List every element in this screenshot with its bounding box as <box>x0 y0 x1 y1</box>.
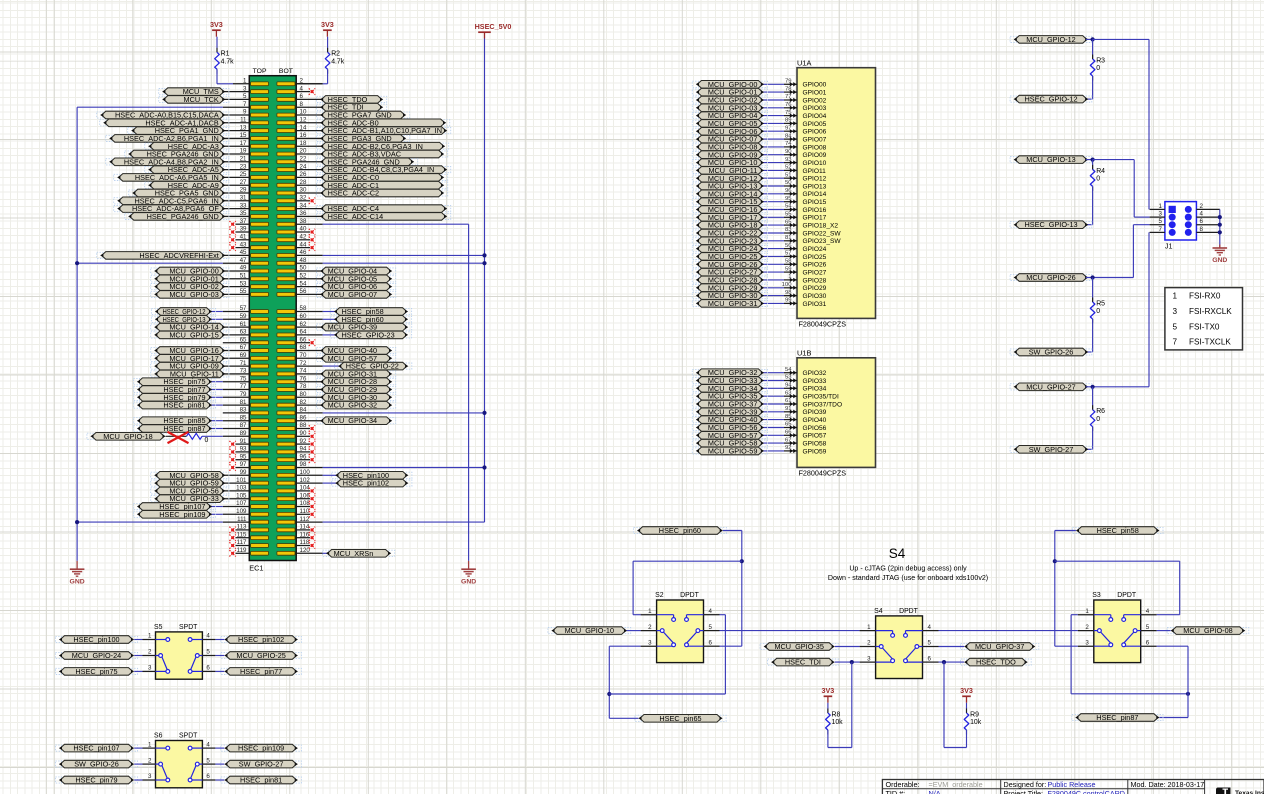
wire <box>210 396 223 398</box>
svg-text:1: 1 <box>648 608 652 615</box>
svg-text:GPIO33: GPIO33 <box>803 378 827 385</box>
svg-text:3: 3 <box>648 639 652 646</box>
svg-text:GPIO02: GPIO02 <box>803 97 827 104</box>
wire <box>210 404 223 406</box>
svg-text:F280049C controlCARD: F280049C controlCARD <box>1048 789 1126 794</box>
svg-text:59: 59 <box>785 266 792 272</box>
wire <box>608 646 610 718</box>
svg-text:GND: GND <box>1212 257 1227 264</box>
no-ERC marker <box>229 542 235 548</box>
wire <box>210 506 223 508</box>
port MCU_GPIO-16 <box>696 205 764 214</box>
svg-text:GPIO31: GPIO31 <box>803 301 827 308</box>
no-ERC marker <box>309 457 315 463</box>
wire <box>1054 531 1056 647</box>
svg-text:SPDT: SPDT <box>179 624 198 631</box>
port MCU_GPIO-00 <box>696 80 764 89</box>
wire <box>761 169 784 171</box>
port HSEC_pin58 <box>1076 526 1160 535</box>
svg-text:HSEC_pin81: HSEC_pin81 <box>163 401 205 410</box>
port HSEC_ADC-C0 <box>320 173 444 182</box>
wire <box>1092 319 1094 352</box>
port MCU_GPIO-16 <box>154 346 225 355</box>
svg-text:GPIO15: GPIO15 <box>803 199 827 206</box>
svg-text:75: 75 <box>785 110 792 116</box>
switch S3 DPDT <box>1078 592 1157 662</box>
wire <box>134 639 142 641</box>
no-ERC marker <box>229 441 235 447</box>
wire <box>1055 560 1180 562</box>
wire <box>723 530 742 532</box>
port MCU_GPIO-15 <box>154 330 225 339</box>
resistor R3 <box>1090 55 1105 81</box>
junction <box>1053 559 1057 563</box>
wire <box>1092 186 1094 224</box>
svg-text:5: 5 <box>1146 624 1150 631</box>
svg-text:GPIO28: GPIO28 <box>803 277 827 284</box>
svg-text:N/A: N/A <box>929 789 941 794</box>
svg-text:85: 85 <box>785 414 792 420</box>
wire <box>1071 614 1078 616</box>
port MCU_GPIO-34 <box>696 384 764 393</box>
no-ERC marker <box>229 244 235 250</box>
svg-text:6: 6 <box>928 655 932 662</box>
port HSEC_ADC-C2 <box>320 189 444 198</box>
wire <box>323 311 337 313</box>
port HSEC_PGA7_GND <box>320 111 406 120</box>
svg-text:MCU_GPIO-12: MCU_GPIO-12 <box>1026 35 1075 44</box>
port MCU_TCK <box>162 95 225 104</box>
port MCU_GPIO-04 <box>320 267 392 276</box>
no-ERC marker <box>309 441 315 447</box>
connector EC1 pads <box>251 82 295 555</box>
power 3V3 <box>960 686 973 703</box>
svg-text:1: 1 <box>788 274 791 280</box>
svg-text:GPIO09: GPIO09 <box>803 152 827 159</box>
svg-text:6: 6 <box>206 665 210 672</box>
wire <box>327 37 329 53</box>
wire <box>1132 225 1134 278</box>
wire <box>1148 39 1150 209</box>
port MCU_GPIO-59 <box>696 447 764 456</box>
wire <box>761 138 784 140</box>
U1A pins <box>782 79 842 308</box>
no-ERC marker <box>229 457 235 463</box>
wire <box>724 615 726 694</box>
svg-text:GPIO16: GPIO16 <box>803 207 827 214</box>
port HSEC_PGA5_GND <box>132 189 225 198</box>
wire <box>1160 717 1189 719</box>
wire <box>76 107 78 561</box>
svg-text:MCU_GPIO-08: MCU_GPIO-08 <box>1183 626 1232 635</box>
no-ERC marker <box>309 496 315 502</box>
wire <box>1086 386 1149 388</box>
svg-text:DPDT: DPDT <box>680 592 700 599</box>
port MCU_GPIO-27 <box>696 268 764 277</box>
svg-text:TID #:: TID #: <box>886 789 906 794</box>
wire <box>323 262 485 264</box>
svg-text:HSEC_pin81: HSEC_pin81 <box>240 776 282 785</box>
svg-text:GPIO37/TDO: GPIO37/TDO <box>803 401 843 408</box>
svg-text:3: 3 <box>148 665 152 672</box>
title block <box>882 780 1264 794</box>
no-ERC marker <box>229 527 235 533</box>
svg-text:MCU_GPIO-31: MCU_GPIO-31 <box>708 299 757 308</box>
wire <box>323 334 337 336</box>
port MCU_GPIO-09 <box>696 150 764 159</box>
port HSEC_pin77 <box>137 385 212 394</box>
svg-text:GPIO08: GPIO08 <box>803 144 827 151</box>
svg-text:52: 52 <box>785 165 792 171</box>
port HSEC_ADC-A2,B6,PGA1_IN <box>109 134 225 143</box>
svg-text:66: 66 <box>785 430 792 436</box>
port MCU_GPIO-17 <box>696 213 764 222</box>
svg-text:R4: R4 <box>1096 168 1105 175</box>
svg-text:HSEC_pin102: HSEC_pin102 <box>343 479 389 488</box>
svg-text:67: 67 <box>785 437 792 443</box>
svg-text:Down - standard JTAG (use for: Down - standard JTAG (use for onboard xd… <box>828 574 988 582</box>
svg-text:3V3: 3V3 <box>822 686 835 695</box>
svg-text:GND: GND <box>70 578 85 585</box>
wire <box>966 730 968 748</box>
wire <box>1133 224 1149 226</box>
wire <box>210 420 223 422</box>
svg-text:6: 6 <box>206 773 210 780</box>
port MCU_GPIO-06 <box>696 127 764 136</box>
svg-text:2: 2 <box>867 640 871 647</box>
port HSEC_pin79 <box>137 393 212 402</box>
svg-text:GPIO26: GPIO26 <box>803 262 827 269</box>
junction <box>850 660 854 664</box>
port HSEC_pin87 <box>137 424 212 433</box>
wire <box>215 655 224 657</box>
wire <box>761 193 784 195</box>
svg-text:54: 54 <box>785 204 792 210</box>
junction <box>1186 692 1190 696</box>
no-ERC marker <box>309 237 315 243</box>
svg-text:93: 93 <box>785 157 792 163</box>
svg-text:MCU_GPIO-03: MCU_GPIO-03 <box>169 290 218 299</box>
svg-text:MCU_GPIO-07: MCU_GPIO-07 <box>328 290 377 299</box>
svg-text:0: 0 <box>1096 65 1100 72</box>
J1 pin numbers <box>1159 203 1204 233</box>
wire <box>761 240 784 242</box>
svg-text:HSEC_pin75: HSEC_pin75 <box>75 667 117 676</box>
wire <box>761 411 784 413</box>
port MCU_GPIO-18 <box>90 432 165 441</box>
ground GND <box>461 561 476 586</box>
svg-text:MCU_GPIO-13: MCU_GPIO-13 <box>1026 155 1075 164</box>
svg-text:MCU_GPIO-34: MCU_GPIO-34 <box>328 416 377 425</box>
wire <box>1157 614 1180 616</box>
port MCU_GPIO-10 <box>551 626 627 635</box>
svg-text:DPDT: DPDT <box>1117 592 1137 599</box>
wire <box>1092 39 1094 59</box>
svg-text:GPIO07: GPIO07 <box>803 137 827 144</box>
port HSEC_TDI <box>771 658 835 667</box>
port HSEC_ADC-A9 <box>148 181 225 190</box>
svg-text:FSI-RX0: FSI-RX0 <box>1189 291 1221 300</box>
port HSEC_pin75 <box>59 667 134 676</box>
svg-text:EC1: EC1 <box>249 564 263 573</box>
svg-text:4.7k: 4.7k <box>221 59 235 66</box>
wire <box>761 185 784 187</box>
wire <box>1092 278 1094 303</box>
wire <box>851 662 853 747</box>
svg-text:57: 57 <box>785 251 792 257</box>
wire <box>720 614 726 616</box>
svg-text:3V3: 3V3 <box>960 686 973 695</box>
svg-text:77: 77 <box>785 94 792 100</box>
wire <box>633 560 742 562</box>
port MCU_GPIO-31 <box>320 369 392 378</box>
wire <box>1055 645 1078 647</box>
port MCU_GPIO-17 <box>154 354 225 363</box>
wire <box>1179 561 1181 615</box>
wire <box>210 428 223 430</box>
svg-text:MCU_GPIO-35: MCU_GPIO-35 <box>774 642 823 651</box>
port MCU_GPIO-25 <box>224 651 298 660</box>
wire <box>761 395 784 397</box>
svg-text:4: 4 <box>1146 608 1150 615</box>
no-ERC marker <box>309 229 315 235</box>
IC U1A F280049CPZS <box>797 58 876 328</box>
svg-text:SW_GPIO-27: SW_GPIO-27 <box>1029 445 1074 454</box>
wire <box>761 99 784 101</box>
port MCU_GPIO-39 <box>696 407 764 416</box>
svg-text:HSEC_GPIO-13: HSEC_GPIO-13 <box>1024 220 1077 229</box>
port HSEC_ADC-C4 <box>320 204 447 213</box>
svg-text:GPIO00: GPIO00 <box>803 82 827 89</box>
port MCU_GPIO-56 <box>154 486 225 495</box>
svg-text:GPIO35/TDI: GPIO35/TDI <box>803 394 839 401</box>
wire <box>761 224 784 226</box>
svg-text:HSEC_TDO: HSEC_TDO <box>976 658 1016 667</box>
port MCU_GPIO-27 <box>1014 382 1089 391</box>
svg-text:10k: 10k <box>832 719 844 726</box>
J1 pin stubs <box>1150 209 1220 232</box>
port MCU_GPIO-11 <box>696 166 764 175</box>
port MCU_GPIO-32 <box>696 368 764 377</box>
port MCU_GPIO-33 <box>696 376 764 385</box>
port MCU_GPIO-05 <box>696 119 764 128</box>
resistor R2 <box>325 48 344 74</box>
svg-text:79: 79 <box>785 79 792 85</box>
wire <box>484 39 486 523</box>
svg-text:0: 0 <box>205 437 209 444</box>
svg-text:SW_GPIO-26: SW_GPIO-26 <box>74 760 119 769</box>
port HSEC_pin107 <box>137 502 212 511</box>
svg-text:GPIO01: GPIO01 <box>803 90 827 97</box>
svg-text:5: 5 <box>1173 322 1178 331</box>
wire <box>761 209 784 211</box>
svg-text:4: 4 <box>709 608 713 615</box>
wire <box>741 531 743 647</box>
port MCU_GPIO-01 <box>696 88 764 97</box>
svg-text:GPIO13: GPIO13 <box>803 183 827 190</box>
wire <box>632 561 634 615</box>
svg-text:4.7k: 4.7k <box>331 59 345 66</box>
svg-text:GPIO56: GPIO56 <box>803 425 827 432</box>
svg-text:J1: J1 <box>1165 242 1173 251</box>
port SW_GPIO-27 <box>1014 445 1089 454</box>
wire <box>323 412 485 414</box>
no-ERC marker <box>309 449 315 455</box>
power 3V3 <box>822 686 835 703</box>
svg-text:DPDT: DPDT <box>899 608 919 615</box>
port HSEC_PGA246_GND <box>128 212 225 221</box>
svg-text:3: 3 <box>148 773 152 780</box>
svg-text:HSEC_GPIO-23: HSEC_GPIO-23 <box>342 330 395 339</box>
wire <box>323 467 485 469</box>
wire <box>323 552 329 554</box>
wire <box>134 655 142 657</box>
wire <box>134 670 142 672</box>
svg-text:0: 0 <box>1096 308 1100 315</box>
port MCU_GPIO-59 <box>154 479 225 488</box>
junction <box>1091 158 1095 162</box>
port HSEC_pin58 <box>334 307 408 316</box>
svg-text:100: 100 <box>782 282 793 288</box>
svg-text:GPIO14: GPIO14 <box>803 191 827 198</box>
wire <box>323 474 338 476</box>
svg-text:GPIO59: GPIO59 <box>803 448 827 455</box>
port HSEC_ADC-B2,C6,PGA3_IN <box>320 142 445 151</box>
port HSEC_pin102 <box>335 479 408 488</box>
resistor R4 <box>1090 165 1105 191</box>
wire <box>210 311 223 313</box>
port MCU_GPIO-40 <box>320 346 392 355</box>
port HSEC_TDI <box>320 103 383 112</box>
wire <box>827 730 829 748</box>
port HSEC_pin65 <box>638 714 722 723</box>
svg-text:4: 4 <box>206 741 210 748</box>
svg-text:MCU_GPIO-18: MCU_GPIO-18 <box>103 432 152 441</box>
wire <box>215 639 224 641</box>
svg-text:Orderable:: Orderable: <box>886 780 920 789</box>
port MCU_GPIO-25 <box>696 252 764 261</box>
wire <box>761 248 784 250</box>
resistor R5 <box>1090 298 1105 324</box>
svg-text:GPIO04: GPIO04 <box>803 113 827 120</box>
wire <box>761 442 784 444</box>
no-ERC marker <box>309 244 315 250</box>
wire <box>828 747 852 749</box>
power 3V3 <box>321 20 334 37</box>
port HSEC_pin100 <box>335 471 408 480</box>
port HSEC_ADC-A5 <box>148 165 225 174</box>
port MCU_GPIO-14 <box>696 189 764 198</box>
no-ERC marker <box>309 340 315 346</box>
port MCU_GPIO-58 <box>154 471 225 480</box>
wire <box>761 122 784 124</box>
port HSEC_ADC-C1 <box>320 181 444 190</box>
wire <box>134 779 142 781</box>
port HSEC_ADC-A3 <box>148 142 225 151</box>
port MCU_GPIO-09 <box>154 362 225 371</box>
svg-text:5: 5 <box>206 757 210 764</box>
svg-text:GPIO23_SW: GPIO23_SW <box>803 238 842 245</box>
port MCU_GPIO-30 <box>696 291 764 300</box>
svg-text:5: 5 <box>709 624 713 631</box>
TI logo <box>1216 788 1264 794</box>
wire <box>77 106 223 108</box>
no-ERC marker <box>229 449 235 455</box>
svg-text:HSEC_pin87: HSEC_pin87 <box>1096 713 1138 722</box>
svg-text:R6: R6 <box>1096 408 1105 415</box>
port MCU_GPIO-26 <box>696 260 764 269</box>
port HSEC_ADC-C14 <box>320 212 447 221</box>
svg-text:MCU_XRSn: MCU_XRSn <box>334 549 374 558</box>
port MCU_GPIO-33 <box>154 494 225 503</box>
svg-text:HSEC_pin77: HSEC_pin77 <box>240 667 282 676</box>
wire <box>1071 693 1188 695</box>
ground GND <box>70 561 85 586</box>
svg-text:F280049CPZS: F280049CPZS <box>799 320 847 329</box>
wire <box>835 646 860 648</box>
port HSEC_ADC-B1,A10,C10,PGA7_IN <box>320 126 447 135</box>
port MCU_GPIO-13 <box>696 182 764 191</box>
wire <box>761 107 784 109</box>
wire <box>944 747 967 749</box>
svg-text:MCU_GPIO-15: MCU_GPIO-15 <box>169 330 218 339</box>
junction <box>1091 275 1095 279</box>
port SW_GPIO-27 <box>224 760 298 769</box>
port MCU_GPIO-08 <box>1171 626 1246 635</box>
port MCU_GPIO-07 <box>696 135 764 144</box>
svg-text:GPIO58: GPIO58 <box>803 441 827 448</box>
svg-text:HSEC_ADC-C14: HSEC_ADC-C14 <box>328 212 384 221</box>
port HSEC_TDO <box>320 95 383 104</box>
wire <box>835 661 860 663</box>
wire <box>609 693 725 695</box>
svg-text:2: 2 <box>148 649 152 656</box>
wire <box>1086 351 1093 353</box>
svg-text:R2: R2 <box>331 51 340 58</box>
ground GND <box>1212 245 1227 265</box>
svg-text:81: 81 <box>785 235 792 241</box>
wire <box>134 763 142 765</box>
svg-text:MCU_GPIO-10: MCU_GPIO-10 <box>565 626 614 635</box>
connector EC1 <box>249 68 296 573</box>
svg-text:S6: S6 <box>154 733 163 740</box>
wire <box>215 763 224 765</box>
port HSEC_ADC-A8,PGA6_OF <box>117 204 225 213</box>
wire <box>761 115 784 117</box>
svg-text:R5: R5 <box>1096 300 1105 307</box>
wire <box>761 83 784 85</box>
svg-text:GPIO12: GPIO12 <box>803 176 827 183</box>
svg-text:3: 3 <box>1173 307 1178 316</box>
svg-text:6: 6 <box>709 639 713 646</box>
svg-text:1: 1 <box>1173 291 1178 300</box>
port MCU_TMS <box>162 87 225 96</box>
wire <box>761 302 784 304</box>
svg-text:65: 65 <box>785 219 792 225</box>
port HSEC_GPIO-22 <box>338 362 408 371</box>
port MCU_GPIO-15 <box>696 197 764 206</box>
wire <box>327 69 329 84</box>
port MCU_GPIO-02 <box>696 96 764 105</box>
junction <box>1218 215 1222 219</box>
svg-text:5: 5 <box>206 649 210 656</box>
svg-text:2: 2 <box>148 757 152 764</box>
wire <box>761 287 784 289</box>
port MCU_GPIO-56 <box>696 423 764 432</box>
wire <box>1133 160 1135 218</box>
switch S2 DPDT <box>641 592 720 662</box>
junction <box>942 660 946 664</box>
